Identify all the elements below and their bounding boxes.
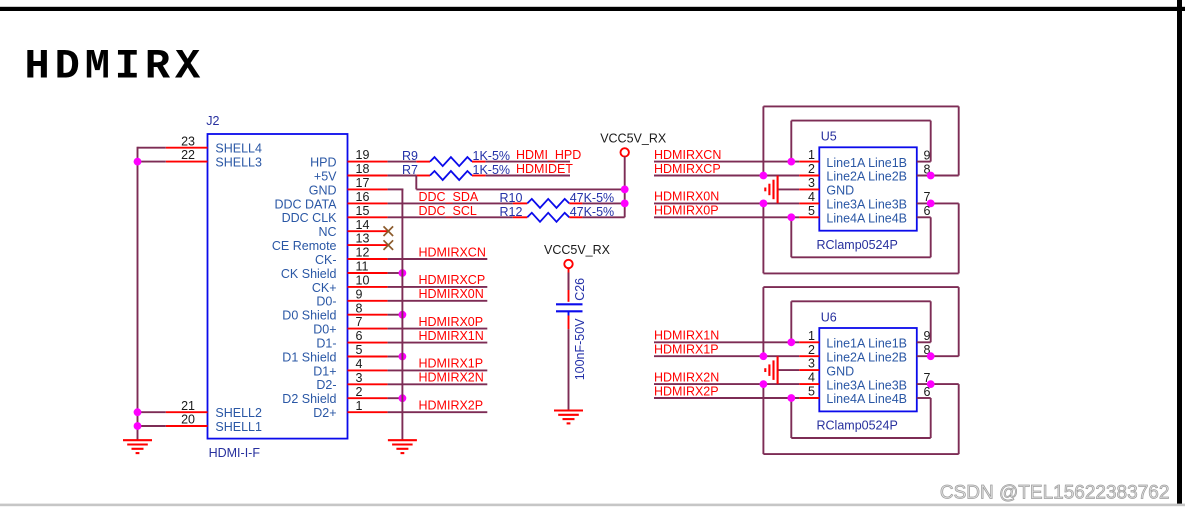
op-amp U5 RClamp0524P body [819,147,917,230]
wire [388,383,488,385]
op-amp U6 RClamp0524P body [819,328,917,411]
wire +5V branch [415,176,417,190]
pin 4 D1+ [348,369,388,371]
pin 5 D1 Shield [348,356,388,358]
svg-text:Line1A Line1B: Line1A Line1B [826,156,907,170]
svg-text:CK+: CK+ [312,281,337,295]
wire outer loop top [958,287,960,356]
wire [388,411,488,413]
wire / net label HDMI_HPD [486,161,570,163]
wire inner loop top [930,121,932,162]
net label DDC_SCL [388,216,513,218]
wire outer loop top [958,106,960,175]
pin 9 [917,341,931,343]
junction [927,172,935,180]
wire gnd vertical [401,189,403,440]
pin 4 [799,202,819,204]
ground (U5 pin3) [777,176,779,204]
svg-text:HDMIRXCN: HDMIRXCN [419,245,486,259]
resistor R12 [513,216,528,218]
svg-text:D0-: D0- [316,295,336,309]
svg-text:D0+: D0+ [313,323,336,337]
junction [760,380,768,388]
svg-text:1: 1 [808,148,815,162]
wire / net label HDMIDET [486,175,570,177]
svg-text:11: 11 [356,260,369,274]
bottom gray rule [0,504,1185,507]
wire [388,369,488,371]
pin 2 [799,355,819,357]
net label DDC_SDA [388,202,513,204]
svg-text:Line3A Line3B: Line3A Line3B [826,378,907,392]
junction [760,352,768,360]
svg-text:DDC DATA: DDC DATA [274,197,337,211]
junction [134,422,142,430]
svg-text:CK-: CK- [315,253,337,267]
wire GND pin [388,188,404,190]
svg-text:6: 6 [924,385,931,399]
pin 7 D0+ [348,328,388,330]
svg-text:CSDN @TEL15622383762: CSDN @TEL15622383762 [940,483,1169,504]
resistor R7 [388,175,417,177]
resistor R9 [388,161,417,163]
svg-text:R12: R12 [500,205,523,219]
svg-text:HDMIDET: HDMIDET [516,162,573,176]
pin 5 [799,216,819,218]
wire / net label HDMIRXCN [654,161,799,163]
pin 8 [917,175,959,177]
pin 11 CK Shield [348,272,388,274]
svg-text:HDMIRX2N: HDMIRX2N [419,371,484,385]
wire shield to gnd [388,397,403,399]
wire inner loop bottom [930,398,932,438]
pin 22 SHELL3 [166,161,208,163]
svg-text:CE Remote: CE Remote [272,239,337,253]
no-connect X [384,226,394,236]
svg-text:R9: R9 [402,149,418,163]
pin 13 CE Remote [348,244,388,246]
svg-text:HDMIRX2P: HDMIRX2P [419,399,484,413]
svg-text:4: 4 [808,371,815,385]
pin 1 D2+ [348,411,388,413]
svg-text:+5V: +5V [314,169,337,183]
svg-text:HDMIRX2P: HDMIRX2P [654,384,719,398]
capacitor C26 [568,268,570,302]
pin 4 [799,383,819,385]
svg-text:J2: J2 [206,114,219,128]
ground (shell) [123,439,152,441]
junction [787,394,795,402]
svg-text:9: 9 [924,148,931,162]
pin 9 [917,161,931,163]
svg-text:13: 13 [356,232,370,246]
pin 18 +5V [348,175,388,177]
svg-text:NC: NC [318,225,336,239]
svg-text:D2 Shield: D2 Shield [282,392,336,406]
junction [399,353,407,361]
svg-text:2: 2 [808,162,815,176]
pin 15 DDC CLK [348,216,388,218]
svg-text:HDMIRX0P: HDMIRX0P [654,204,719,218]
wire / net label HDMIRX0P [654,216,799,218]
svg-text:SHELL1: SHELL1 [215,420,262,434]
junction [927,200,935,208]
junction [760,172,768,180]
wire / net label HDMIRXCP [654,175,799,177]
svg-text:7: 7 [356,315,363,329]
wire [388,300,488,302]
ground (cap) [554,409,583,411]
svg-text:RClamp0524P: RClamp0524P [817,419,898,433]
svg-text:HDMIRX: HDMIRX [25,42,206,90]
junction [621,186,629,194]
ground (connector) [388,439,417,441]
svg-text:HDMIRX2N: HDMIRX2N [654,370,719,384]
svg-text:6: 6 [356,329,363,343]
svg-text:Line4A Line4B: Line4A Line4B [826,392,907,406]
svg-text:9: 9 [356,287,363,301]
pin 10 CK+ [348,286,388,288]
svg-text:GND: GND [826,184,854,198]
wire outer loop bottom [958,384,960,454]
pin 5 [799,397,819,399]
svg-text:10: 10 [356,274,370,288]
svg-text:HDMIRX1P: HDMIRX1P [419,357,484,371]
junction [787,213,795,221]
pin 1 [799,161,819,163]
svg-text:20: 20 [181,413,195,427]
svg-text:22: 22 [181,148,195,162]
svg-text:R7: R7 [402,163,418,177]
svg-text:16: 16 [356,190,370,204]
svg-text:1: 1 [356,399,363,413]
svg-text:47K-5%: 47K-5% [570,191,614,205]
wire vcc stem [624,157,626,218]
wire gnd pin3 [778,188,800,190]
svg-text:VCC5V_RX: VCC5V_RX [600,132,667,146]
svg-text:D1-: D1- [316,337,336,351]
pin 6 D1- [348,342,388,344]
svg-text:SHELL4: SHELL4 [215,142,262,156]
svg-text:Line3A Line3B: Line3A Line3B [826,198,907,212]
junction [399,311,407,319]
wire [388,258,488,260]
svg-text:5: 5 [808,385,815,399]
svg-text:GND: GND [309,183,337,197]
svg-text:DDC_SDA: DDC_SDA [419,190,479,204]
svg-text:SHELL2: SHELL2 [215,406,262,420]
svg-text:18: 18 [356,162,370,176]
ground (U6 pin3) [777,356,779,384]
wire [388,342,488,344]
pin 20 SHELL1 [166,425,208,427]
junction [927,380,935,388]
svg-text:HDMIRX1N: HDMIRX1N [654,329,719,343]
pin 7 [917,383,959,385]
svg-text:CK Shield: CK Shield [281,267,337,281]
svg-text:GND: GND [826,364,854,378]
pin 6 [917,216,931,218]
svg-text:23: 23 [181,134,195,148]
svg-text:D1 Shield: D1 Shield [282,350,336,364]
svg-text:47K-5%: 47K-5% [570,205,614,219]
pin 23 SHELL4 [166,147,208,149]
svg-text:6: 6 [924,204,931,218]
junction [787,158,795,166]
svg-text:3: 3 [808,176,815,190]
pin 3 [799,369,819,371]
junction [927,352,935,360]
svg-text:14: 14 [356,218,370,232]
pin 17 GND [348,188,388,190]
wire gnd pin3 [778,369,800,371]
svg-text:DDC CLK: DDC CLK [282,211,338,225]
svg-text:SHELL3: SHELL3 [215,156,262,170]
svg-text:2: 2 [356,385,363,399]
svg-text:HDMI_HPD: HDMI_HPD [516,148,581,162]
svg-text:15: 15 [356,204,370,218]
pin 3 D2- [348,383,388,385]
svg-text:HDMIRXCP: HDMIRXCP [654,162,721,176]
svg-text:HDMIRXCP: HDMIRXCP [419,273,486,287]
wire inner loop top [930,301,932,342]
svg-text:5: 5 [356,343,363,357]
wire shield to gnd [388,314,403,316]
svg-text:HDMIRX1N: HDMIRX1N [419,329,484,343]
svg-text:Line4A Line4B: Line4A Line4B [826,212,907,226]
junction [134,158,142,166]
pin 12 CK- [348,258,388,260]
pin 3 [799,188,819,190]
svg-text:HDMI-I-F: HDMI-I-F [209,446,261,460]
junction [134,408,142,416]
svg-text:HDMIRX0P: HDMIRX0P [419,315,484,329]
connector J2 body [208,134,348,439]
no-connect X [384,240,394,250]
svg-text:9: 9 [924,329,931,343]
svg-text:HDMIRXCN: HDMIRXCN [654,148,721,162]
pin 8 [917,355,959,357]
wire [388,328,488,330]
svg-text:D2+: D2+ [313,406,336,420]
wire shell vertical [137,147,139,441]
svg-text:HDMIRX0N: HDMIRX0N [419,287,484,301]
svg-text:3: 3 [808,357,815,371]
svg-text:1: 1 [808,329,815,343]
svg-text:RClamp0524P: RClamp0524P [817,238,898,252]
pin 19 HPD [348,161,388,163]
svg-text:3: 3 [356,371,363,385]
sheet top border [0,7,1185,11]
pin 7 [917,202,959,204]
junction [787,338,795,346]
wire [388,286,488,288]
pin 9 D0- [348,300,388,302]
svg-text:4: 4 [808,190,815,204]
pin 6 [917,397,931,399]
wire cap to gnd [568,316,570,330]
pin 21 SHELL2 [166,411,208,413]
junction [760,200,768,208]
wire inner loop bottom [930,217,932,257]
wire / net label HDMIRX0N [654,202,799,204]
svg-text:D1+: D1+ [313,364,336,378]
svg-text:R10: R10 [500,191,523,205]
svg-text:DDC_SCL: DDC_SCL [419,204,477,218]
wire shield to gnd [388,356,403,358]
junction [399,394,407,402]
sheet right border [1177,0,1182,505]
junction [399,269,407,277]
svg-text:C26: C26 [573,278,587,301]
junction [621,200,629,208]
wire / net label HDMIRX1N [654,341,799,343]
svg-text:5: 5 [808,204,815,218]
svg-text:19: 19 [356,148,370,162]
svg-text:Line2A Line2B: Line2A Line2B [826,170,907,184]
pin 14 NC [348,230,388,232]
svg-text:17: 17 [356,176,370,190]
svg-text:U5: U5 [821,130,837,144]
svg-text:Line2A Line2B: Line2A Line2B [826,350,907,364]
resistor R10 [513,202,528,204]
svg-text:21: 21 [181,399,195,413]
wire / net label HDMIRX1P [654,355,799,357]
svg-text:100nF-50V: 100nF-50V [573,318,587,381]
svg-text:VCC5V_RX: VCC5V_RX [544,243,611,257]
svg-text:Line1A Line1B: Line1A Line1B [826,337,907,351]
pin 16 DDC DATA [348,202,388,204]
svg-text:U6: U6 [821,310,837,324]
svg-text:HPD: HPD [310,156,336,170]
svg-text:D2-: D2- [316,378,336,392]
wire outer loop bottom [958,203,960,273]
pin 8 D0 Shield [348,314,388,316]
svg-text:12: 12 [356,246,370,260]
svg-text:D0 Shield: D0 Shield [282,309,336,323]
wire shield to gnd [388,272,403,274]
pin 1 [799,341,819,343]
svg-text:HDMIRX0N: HDMIRX0N [654,190,719,204]
svg-text:HDMIRX1P: HDMIRX1P [654,343,719,357]
wire / net label HDMIRX2P [654,397,799,399]
svg-text:8: 8 [356,301,363,315]
pin 2 [799,175,819,177]
wire / net label HDMIRX2N [654,383,799,385]
pin 2 D2 Shield [348,397,388,399]
svg-text:2: 2 [808,343,815,357]
svg-text:4: 4 [356,357,363,371]
